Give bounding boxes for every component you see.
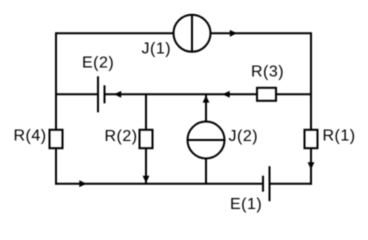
wire branch J2 upper (middle wire down to J2 circle) bbox=[205, 94, 207, 121]
arrowhead R2 branch pointing down into bottom wire bbox=[143, 176, 150, 183]
wire right vertical lower (R1 to bottom-right corner) bbox=[310, 148, 312, 185]
battery E2 short plate (right) bbox=[104, 85, 106, 103]
arrowhead below R1 pointing down bbox=[308, 162, 315, 169]
wire middle-right segment (R3 to right rail) bbox=[276, 93, 311, 95]
wire bottom-left segment (corner to E1 short plate) bbox=[55, 183, 263, 185]
svg-text:R(3): R(3) bbox=[251, 64, 284, 81]
wire bottom-right segment (E1 long plate to corner) bbox=[270, 183, 313, 185]
svg-text:J(1): J(1) bbox=[142, 41, 172, 58]
arrowhead middle wire near E2 pointing left bbox=[114, 91, 121, 98]
arrowhead top wire pointing right bbox=[230, 30, 237, 37]
wire top-left segment (node A to J1) bbox=[56, 32, 174, 34]
current source J1 (circle with vertical bar) bbox=[174, 15, 211, 52]
battery E2 long plate (left) bbox=[97, 76, 99, 112]
wire branch J2 lower (J2 circle to bottom wire) bbox=[205, 159, 207, 184]
arrowhead J2 branch pointing up into middle wire bbox=[203, 95, 210, 102]
resistor R1 body bbox=[305, 130, 318, 148]
wire branch R2 lower (R2 to bottom wire) bbox=[145, 148, 147, 184]
svg-text:E(1): E(1) bbox=[230, 196, 262, 213]
wire left vertical lower (R4 to bottom-left corner) bbox=[55, 148, 57, 185]
svg-text:R(2): R(2) bbox=[105, 128, 138, 145]
arrowhead bottom wire pointing right bbox=[79, 180, 86, 187]
wire middle-left segment (left rail to E2 long plate) bbox=[56, 93, 98, 95]
wire right vertical upper (node B down to R1) bbox=[310, 32, 312, 130]
resistor R4 body bbox=[50, 130, 63, 148]
svg-text:J(2): J(2) bbox=[229, 128, 259, 145]
resistor R2 body bbox=[140, 130, 153, 148]
current source J2 (circle with horizontal bar) bbox=[188, 122, 225, 159]
resistor R3 body bbox=[257, 88, 276, 101]
svg-text:R(4): R(4) bbox=[14, 128, 47, 145]
svg-text:R(1): R(1) bbox=[323, 128, 356, 145]
wire left vertical upper (node A down to R4) bbox=[55, 32, 57, 130]
wire middle segment (E2 short plate to R3) bbox=[105, 93, 258, 95]
arrowhead middle wire right of J2 pointing left bbox=[223, 91, 230, 98]
battery E1 long plate (right) bbox=[269, 166, 271, 201]
wire branch R2 upper (middle wire down to R2) bbox=[145, 94, 147, 130]
battery E1 short plate (left) bbox=[262, 176, 264, 192]
svg-text:E(2): E(2) bbox=[82, 55, 114, 72]
wire top-right segment (J1 to node B) with current direction bbox=[211, 32, 312, 34]
